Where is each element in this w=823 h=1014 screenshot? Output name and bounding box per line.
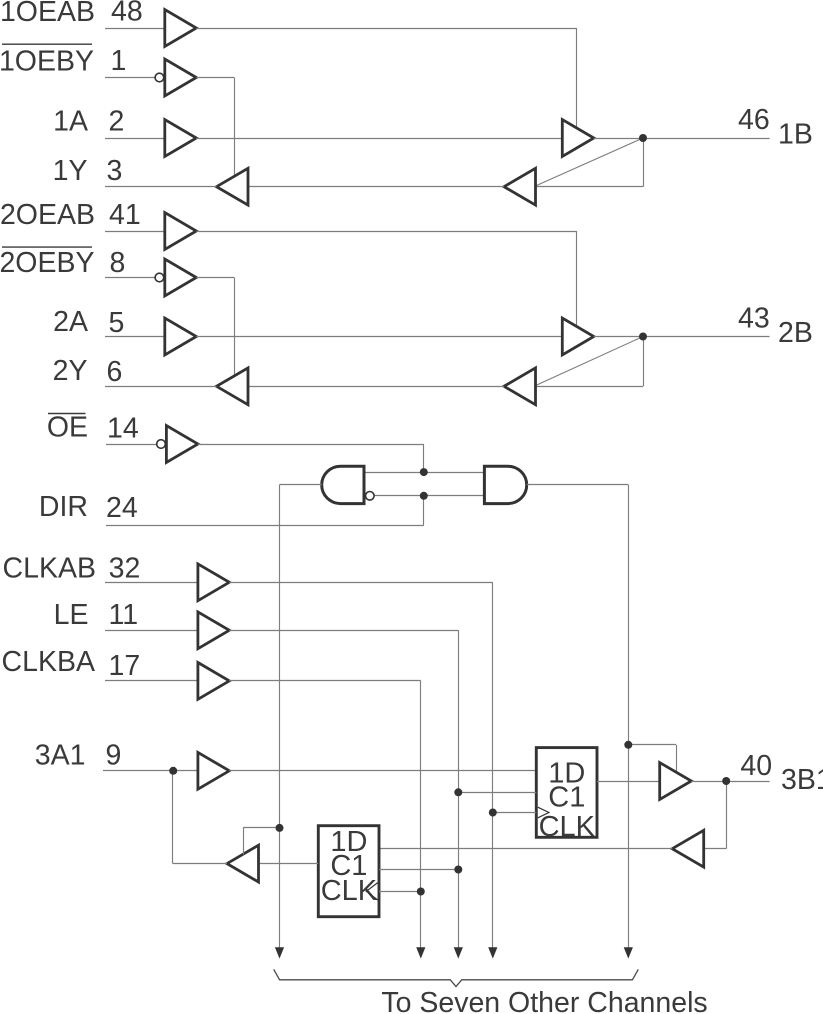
wire — [105, 28, 165, 30]
buffer 1OEBY — [165, 59, 197, 96]
wire (3A1 to latch) — [229, 770, 536, 772]
svg-text:2OEBY: 2OEBY — [0, 247, 95, 279]
svg-text:To Seven Other Channels: To Seven Other Channels — [381, 987, 707, 1014]
wire — [229, 680, 420, 682]
svg-text:6: 6 — [107, 356, 123, 388]
bubble 2OEBY input — [155, 273, 164, 282]
arrow (to other channels) — [488, 947, 497, 958]
latch U2 (B-to-A) 1D C1 CLK — [318, 826, 379, 917]
brace (seven other channels) — [274, 969, 639, 986]
wire — [229, 582, 493, 584]
wire (enable to back driver) — [243, 827, 279, 829]
wire (LE bus) — [458, 630, 460, 948]
bubble 1OEBY input — [155, 73, 164, 82]
svg-text:1: 1 — [111, 45, 127, 77]
wire (LE to U2 C1) — [379, 869, 458, 871]
wire (U1 output) — [597, 781, 660, 783]
wire (CLKBA bus) — [420, 681, 422, 949]
wire — [105, 336, 165, 338]
svg-text:2: 2 — [109, 105, 125, 137]
svg-text:48: 48 — [111, 0, 143, 28]
svg-text:9: 9 — [106, 740, 122, 772]
wire 3B1 — [691, 781, 769, 783]
wire — [105, 186, 217, 188]
buffer 2A input — [165, 318, 197, 355]
wire — [196, 277, 234, 279]
wire (B feedback across) — [536, 386, 644, 388]
svg-text:40: 40 — [740, 750, 772, 782]
node A-to-B enable junction — [624, 741, 632, 749]
buffer 3B1-to-A driver — [672, 830, 704, 867]
wire (back to 3A1) — [173, 863, 227, 865]
node B-to-A enable junction — [276, 824, 284, 832]
wire (B driver enable diagonal) — [537, 138, 644, 186]
wire — [248, 386, 504, 388]
wire 3A1 — [103, 770, 198, 772]
svg-text:CLKBA: CLKBA — [2, 646, 95, 678]
node CLKBA-CLK junction — [417, 888, 425, 896]
wire — [248, 186, 504, 188]
svg-text:CLK: CLK — [539, 811, 596, 843]
wire — [105, 582, 198, 584]
arrow (to other channels) — [454, 947, 463, 958]
wire (G1 output) — [280, 484, 323, 486]
node LE-C1 junction — [454, 788, 462, 796]
wire (upper gate inputs) — [364, 472, 485, 474]
buffer CLKBA input — [198, 663, 229, 700]
wire (B feedback down) — [643, 337, 645, 387]
svg-text:1A: 1A — [53, 105, 88, 137]
wire (3B1 feedback across) — [704, 848, 727, 850]
wire (B feedback down) — [643, 138, 645, 187]
svg-text:43: 43 — [738, 303, 770, 335]
wire (enable down) — [676, 745, 678, 773]
buffer 3A1 input — [198, 752, 229, 789]
svg-text:CLK: CLK — [321, 875, 378, 907]
wire (B driver enable diagonal) — [537, 337, 644, 386]
svg-text:46: 46 — [738, 104, 770, 136]
wire (enable down 2) — [243, 828, 245, 855]
wire (DIR up to node) — [423, 496, 425, 526]
node OE-enable junction — [420, 468, 428, 476]
svg-text:5: 5 — [109, 307, 125, 339]
node 2B junction — [639, 333, 647, 341]
buffer 2Y output driver — [217, 368, 249, 405]
wire — [594, 138, 770, 140]
wire — [105, 386, 217, 388]
node 3B1 junction — [722, 777, 730, 785]
node LE-C1 junction 2 — [454, 866, 462, 874]
svg-text:1Y: 1Y — [53, 155, 88, 187]
arrow (to other channels) — [624, 947, 633, 958]
buffer 1B-to-Y driver — [504, 168, 536, 205]
buffer 1OEAB — [165, 10, 197, 47]
AND gate G1 (B-to-A enable) — [322, 466, 364, 503]
wire (lower gate inputs) — [374, 495, 484, 497]
wire (CLKAB bus) — [492, 582, 494, 948]
svg-text:OE: OE — [47, 412, 88, 444]
svg-text:8: 8 — [110, 247, 126, 279]
svg-text:CLKAB: CLKAB — [3, 552, 96, 584]
overbar 2OEBY — [2, 246, 92, 248]
buffer OE input — [166, 426, 198, 463]
wire (3B1 feedback down) — [726, 781, 728, 849]
wire (OE to gates) — [198, 444, 424, 446]
wire (enable to Y driver) — [234, 78, 236, 177]
svg-text:2OEAB: 2OEAB — [0, 199, 95, 231]
wire — [229, 630, 458, 632]
svg-text:LE: LE — [54, 599, 89, 631]
wire — [106, 444, 157, 446]
buffer 1B output driver — [562, 120, 594, 157]
wire — [196, 138, 562, 140]
arrow (to other channels) — [416, 947, 425, 958]
svg-text:3: 3 — [107, 155, 123, 187]
svg-text:11: 11 — [109, 599, 139, 631]
svg-text:2Y: 2Y — [53, 355, 88, 387]
wire (enable to B driver) — [576, 28, 578, 129]
wire — [105, 138, 165, 140]
AND gate G2 (A-to-B enable) — [484, 466, 526, 503]
svg-text:3B1: 3B1 — [781, 764, 823, 796]
buffer 3B1 output driver — [660, 763, 692, 800]
overbar 1OEBY — [2, 43, 92, 45]
buffer 2OEAB — [165, 213, 197, 250]
wire (LE to U1 C1) — [458, 792, 536, 794]
wire (enable to 3B1 driver) — [628, 744, 676, 746]
wire — [196, 77, 234, 79]
svg-text:DIR: DIR — [39, 491, 88, 523]
svg-text:17: 17 — [109, 650, 141, 682]
wire — [196, 231, 576, 233]
wire (G2 output) — [527, 484, 629, 486]
wire (CLKBA to U2 CLK) — [379, 891, 421, 893]
bubble OE input — [157, 440, 166, 449]
buffer 2OEBY — [165, 259, 197, 296]
buffer 2B output driver — [562, 318, 594, 355]
svg-text:3A1: 3A1 — [35, 740, 86, 772]
svg-text:24: 24 — [106, 492, 138, 524]
wire (B data to latch U2) — [379, 848, 673, 850]
bubble G1 inverted input — [366, 492, 375, 501]
svg-text:1B: 1B — [778, 119, 813, 151]
arrow (to other channels) — [275, 947, 284, 958]
buffer 1A input — [165, 120, 197, 157]
wire — [196, 28, 576, 30]
node 3A1 junction — [169, 767, 177, 775]
svg-text:32: 32 — [109, 552, 141, 584]
buffer 2B-to-Y driver — [504, 368, 536, 405]
svg-text:1OEBY: 1OEBY — [0, 46, 94, 78]
wire DIR — [106, 525, 424, 527]
buffer CLKAB input — [198, 564, 229, 601]
wire — [196, 336, 562, 338]
buffer 1Y output driver — [217, 168, 249, 205]
wire — [105, 680, 198, 682]
buffer A-side back driver — [227, 845, 259, 882]
wire (U2 output) — [259, 863, 318, 865]
wire — [105, 77, 155, 79]
wire (OE down to node) — [423, 444, 425, 472]
wire (enable to B driver) — [576, 231, 578, 327]
buffer LE input — [198, 612, 229, 649]
wire — [105, 231, 165, 233]
wire (A-to-B enable bus) — [628, 485, 630, 949]
wire — [105, 277, 155, 279]
svg-text:41: 41 — [109, 199, 141, 231]
svg-text:1OEAB: 1OEAB — [0, 0, 95, 28]
wire — [105, 630, 198, 632]
svg-text:14: 14 — [107, 413, 139, 445]
node CLKAB-CLK junction — [489, 809, 497, 817]
latch U1 (A-to-B) 1D C1 CLK — [536, 748, 597, 843]
node 1B junction — [639, 134, 647, 142]
svg-text:2B: 2B — [778, 317, 813, 349]
wire (B feedback across) — [536, 186, 644, 188]
svg-text:2A: 2A — [53, 306, 88, 338]
wire — [594, 336, 770, 338]
overbar OE — [48, 413, 86, 415]
wire (feedback up to 3A1) — [172, 771, 174, 864]
node DIR junction — [420, 492, 428, 500]
svg-text:C1: C1 — [548, 781, 585, 813]
wire (B-to-A enable bus) — [279, 485, 281, 949]
wire (enable to Y driver) — [234, 278, 236, 376]
wire (CLKAB to U1 CLK) — [493, 812, 537, 814]
